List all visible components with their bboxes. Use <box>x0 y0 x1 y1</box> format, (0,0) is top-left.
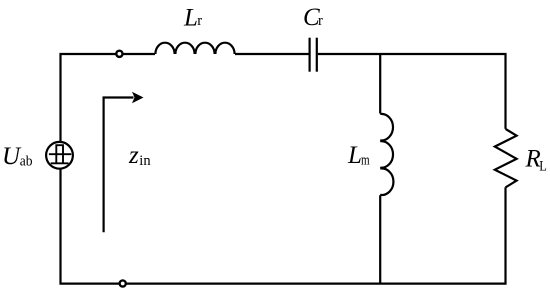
svg-text:L: L <box>347 142 362 169</box>
svg-text:L: L <box>183 4 198 31</box>
wire: top segment from Cr to top-right corner and right drop <box>318 54 506 129</box>
arrow zin head <box>132 92 144 103</box>
svg-text:L: L <box>539 159 547 175</box>
svg-text:z: z <box>128 142 139 169</box>
resistor R1 RL <box>495 129 517 188</box>
wire: top segment between Lr and Cr <box>235 53 309 55</box>
capacitor C1 Cr plate right <box>316 38 318 72</box>
inductor L2 Lm <box>380 114 393 195</box>
source V1 Uab square-wave symbol <box>49 145 71 163</box>
arrow zin <box>104 98 134 233</box>
wire: outer loop (top wire to Lr, left side through Uab, bottom wire, right side up to RL) <box>61 54 506 284</box>
inductor L1 Lr <box>155 43 234 54</box>
wire: Lm branch bottom <box>379 195 381 283</box>
node a terminal (top) <box>116 51 122 57</box>
svg-text:ab: ab <box>20 154 33 170</box>
svg-text:in: in <box>139 153 151 169</box>
source V1 Uab circle <box>46 142 73 169</box>
svg-text:r: r <box>197 13 202 29</box>
capacitor C1 Cr plate left <box>309 38 311 72</box>
node b terminal (bottom) <box>120 280 126 286</box>
svg-text:r: r <box>318 13 323 29</box>
wire: Lm branch top <box>379 54 381 114</box>
svg-text:m: m <box>361 153 370 169</box>
